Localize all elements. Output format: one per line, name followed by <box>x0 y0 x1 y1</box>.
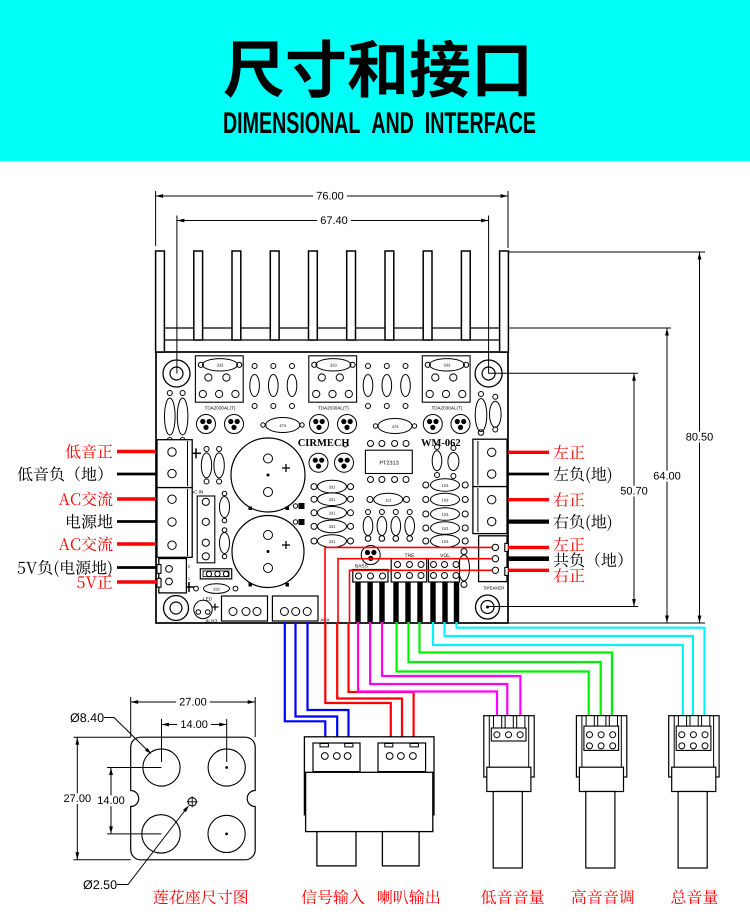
label line 5vneg <box>117 566 157 569</box>
svg-text:TDA2030AL(T): TDA2030AL(T) <box>318 406 349 411</box>
filter capacitor C1 <box>231 438 305 512</box>
label line ac2 <box>117 542 156 545</box>
wire volume cyan 2 <box>445 622 693 717</box>
RCA hole top-left <box>143 749 180 786</box>
module leg right <box>382 832 419 866</box>
svg-text:Ø2.50: Ø2.50 <box>83 878 117 892</box>
label bass- <box>17 466 102 481</box>
wire speaker red 2 <box>337 623 402 738</box>
svg-text:SPEAKER: SPEAKER <box>484 586 505 591</box>
svg-text:LED: LED <box>203 597 213 602</box>
capacitor pair near C1 <box>201 447 224 485</box>
label spk left+ <box>554 537 585 551</box>
wire signal blue 1 <box>285 622 326 738</box>
dimension 76.00 <box>156 190 508 248</box>
resistor right edge <box>475 392 501 436</box>
red trace to speaker pin3 <box>350 570 493 623</box>
dimension 64.00 <box>508 328 684 623</box>
title text <box>224 39 526 97</box>
header J7 <box>200 569 231 579</box>
svg-text:113: 113 <box>385 497 392 502</box>
wire volume cyan 3 <box>457 622 705 717</box>
RCA dim 27.00 top <box>131 696 256 737</box>
label right+ <box>554 492 585 507</box>
wire treble green 1 <box>397 622 589 717</box>
mounting hole top-left <box>163 360 190 387</box>
small transistor mid-left pair <box>309 453 328 472</box>
label line left+ <box>508 451 549 454</box>
capacitor ovals row <box>261 418 417 434</box>
label line right+ <box>508 498 549 501</box>
label RCA drawing <box>153 890 247 905</box>
label spk common <box>554 552 623 567</box>
svg-text:TDA2030AL(T): TDA2030AL(T) <box>431 406 462 411</box>
wire bass magenta 3 <box>382 622 520 717</box>
header cyan band <box>0 0 750 161</box>
svg-text:331: 331 <box>329 497 336 502</box>
label speaker output <box>378 889 440 904</box>
wire speaker red 1 <box>325 623 391 738</box>
right terminal block J4 <box>473 439 507 486</box>
left terminal block J2 <box>157 488 192 558</box>
svg-text:80.50: 80.50 <box>686 431 714 443</box>
label line left- <box>508 473 549 476</box>
resistor column right-mid <box>423 479 468 548</box>
resistor group top row 1 <box>250 364 297 409</box>
red trace to speaker pin1 <box>325 547 492 623</box>
master volume connector <box>669 716 719 868</box>
svg-text:103: 103 <box>442 483 449 488</box>
svg-text:WM-062: WM-062 <box>421 438 461 449</box>
label master volume <box>671 890 717 905</box>
wire treble green 3 <box>420 622 612 717</box>
wire bass magenta 2 <box>370 622 507 717</box>
LED D1 <box>194 597 219 624</box>
svg-text:14.00: 14.00 <box>180 719 208 731</box>
label signal input <box>302 889 365 904</box>
RCA dia 2.50 callout <box>83 805 189 892</box>
label line pgnd <box>117 520 156 523</box>
bottom extension line <box>508 622 705 624</box>
svg-text:332: 332 <box>213 587 220 592</box>
label line spk left+ <box>508 546 549 549</box>
resistor column left-mid <box>311 480 354 547</box>
label line spk right+ <box>508 569 549 572</box>
RCA hole top-right <box>208 749 245 786</box>
label ac1 <box>59 491 113 506</box>
svg-text:333: 333 <box>330 363 337 368</box>
svg-text:14.00: 14.00 <box>97 795 125 807</box>
RCA dim 27.00 left <box>60 737 130 860</box>
bass volume connector <box>484 716 534 868</box>
svg-text:PT2313: PT2313 <box>379 461 398 467</box>
svg-text:333: 333 <box>217 363 224 368</box>
label 5vneg <box>18 560 112 577</box>
svg-text:474: 474 <box>279 423 286 428</box>
svg-text:DIMENSIONAL AND INTERFACE: DIMENSIONAL AND INTERFACE <box>223 107 536 140</box>
heatsink <box>156 251 509 352</box>
left terminal block J3 5V <box>157 559 191 593</box>
label right- <box>554 514 612 531</box>
svg-text:AUX3: AUX3 <box>205 619 217 624</box>
mounting hole bottom-left <box>164 596 189 621</box>
label line 5vpos <box>117 580 157 583</box>
svg-text:50.70: 50.70 <box>620 485 648 497</box>
svg-text:331: 331 <box>329 484 336 489</box>
red trace to speaker pin2 <box>338 559 492 623</box>
label treble tone <box>572 889 634 904</box>
svg-text:331: 331 <box>329 524 336 529</box>
right terminal block J5 <box>473 487 507 534</box>
RCA plate outline <box>131 737 256 860</box>
module leg left <box>317 832 356 866</box>
RCA dim 14.00 top <box>162 719 227 762</box>
module body <box>306 772 433 831</box>
voltage regulator U2 <box>191 490 215 563</box>
power transistor module Q2 <box>309 356 357 411</box>
wire signal blue 2 <box>296 622 338 738</box>
signal-speaker connector module <box>304 737 434 815</box>
resistor pair left edge <box>165 391 188 443</box>
polarity marks <box>249 507 290 587</box>
wire volume cyan 1 <box>433 622 683 717</box>
header VOL <box>429 553 460 582</box>
filter capacitor C2 <box>232 516 304 588</box>
treble tone connector <box>576 716 626 868</box>
label line bass- <box>117 473 156 476</box>
capacitor right of VOL <box>459 549 470 588</box>
RCA dim 14.00 left <box>94 768 161 834</box>
svg-text:331: 331 <box>329 539 336 544</box>
right terminal block J6 speaker <box>479 536 509 591</box>
label pgnd <box>67 514 112 529</box>
plus marks <box>184 448 201 592</box>
speaker output socket <box>378 743 426 772</box>
power transistor module Q3 <box>422 356 470 411</box>
resistor R-332 <box>194 584 238 594</box>
header BASS <box>353 564 388 583</box>
bottom connector J8 <box>222 596 268 621</box>
svg-text:76.00: 76.00 <box>316 190 344 202</box>
transistor near BASS <box>361 546 380 565</box>
svg-text:BASS: BASS <box>355 564 368 570</box>
svg-text:103: 103 <box>442 497 449 502</box>
mounting hole bottom-right <box>476 595 500 619</box>
svg-text:331: 331 <box>329 511 336 516</box>
svg-text:103: 103 <box>442 526 449 531</box>
capacitor row of four <box>363 510 414 542</box>
capacitor pair small <box>220 491 230 559</box>
RCA hole bottom-left <box>142 815 180 853</box>
svg-text:Ø8.40: Ø8.40 <box>70 711 104 725</box>
small transistors row <box>197 415 471 434</box>
header TRE <box>391 553 427 582</box>
wire treble green 2 <box>409 622 601 717</box>
label line ac1 <box>117 497 156 500</box>
PCB outline <box>156 352 508 623</box>
label left+ <box>554 445 585 459</box>
dimension 50.70 <box>488 373 651 606</box>
svg-text:333: 333 <box>444 363 451 368</box>
label line bass+ <box>117 450 156 453</box>
jumper pads <box>293 503 304 525</box>
RCA hole bottom-right <box>208 815 245 852</box>
mounting hole top-right <box>475 360 502 387</box>
pin strip <box>355 582 459 622</box>
svg-text:103: 103 <box>442 512 449 517</box>
svg-text:27.00: 27.00 <box>64 793 92 805</box>
svg-text:103: 103 <box>442 539 449 544</box>
resistor middle <box>367 493 410 506</box>
svg-text:27.00: 27.00 <box>179 696 207 708</box>
dimension 80.50 <box>508 252 716 623</box>
resistor group top row 2 <box>363 364 410 409</box>
label spk right+ <box>554 568 585 583</box>
left terminal block J1 <box>157 440 192 488</box>
wire speaker red 3 <box>349 623 414 738</box>
label line spk common <box>508 556 549 561</box>
label 5vpos <box>77 575 112 588</box>
signal input socket <box>313 743 360 772</box>
svg-text:CIRMECH: CIRMECH <box>298 438 350 449</box>
label ac2 <box>59 536 113 551</box>
power transistor module Q1 <box>195 356 243 411</box>
capacitors beside IC <box>432 445 459 479</box>
svg-text:TDA2030AL(T): TDA2030AL(T) <box>205 406 236 411</box>
label line right- <box>508 519 549 523</box>
RCA dia 8.40 callout <box>70 711 152 754</box>
label bass volume <box>481 890 544 905</box>
dimension 67.40 <box>177 215 489 374</box>
wire bass magenta 1 <box>358 622 497 717</box>
svg-text:474: 474 <box>392 424 399 429</box>
svg-text:64.00: 64.00 <box>653 470 681 482</box>
IC U1 <box>365 441 412 483</box>
label bass+ <box>65 444 112 459</box>
wire signal blue 3 <box>308 622 349 738</box>
bottom connector J9 aux input <box>272 596 329 623</box>
svg-text:67.40: 67.40 <box>320 215 348 227</box>
RCA center screw hole <box>187 796 198 807</box>
label left- <box>554 466 612 483</box>
